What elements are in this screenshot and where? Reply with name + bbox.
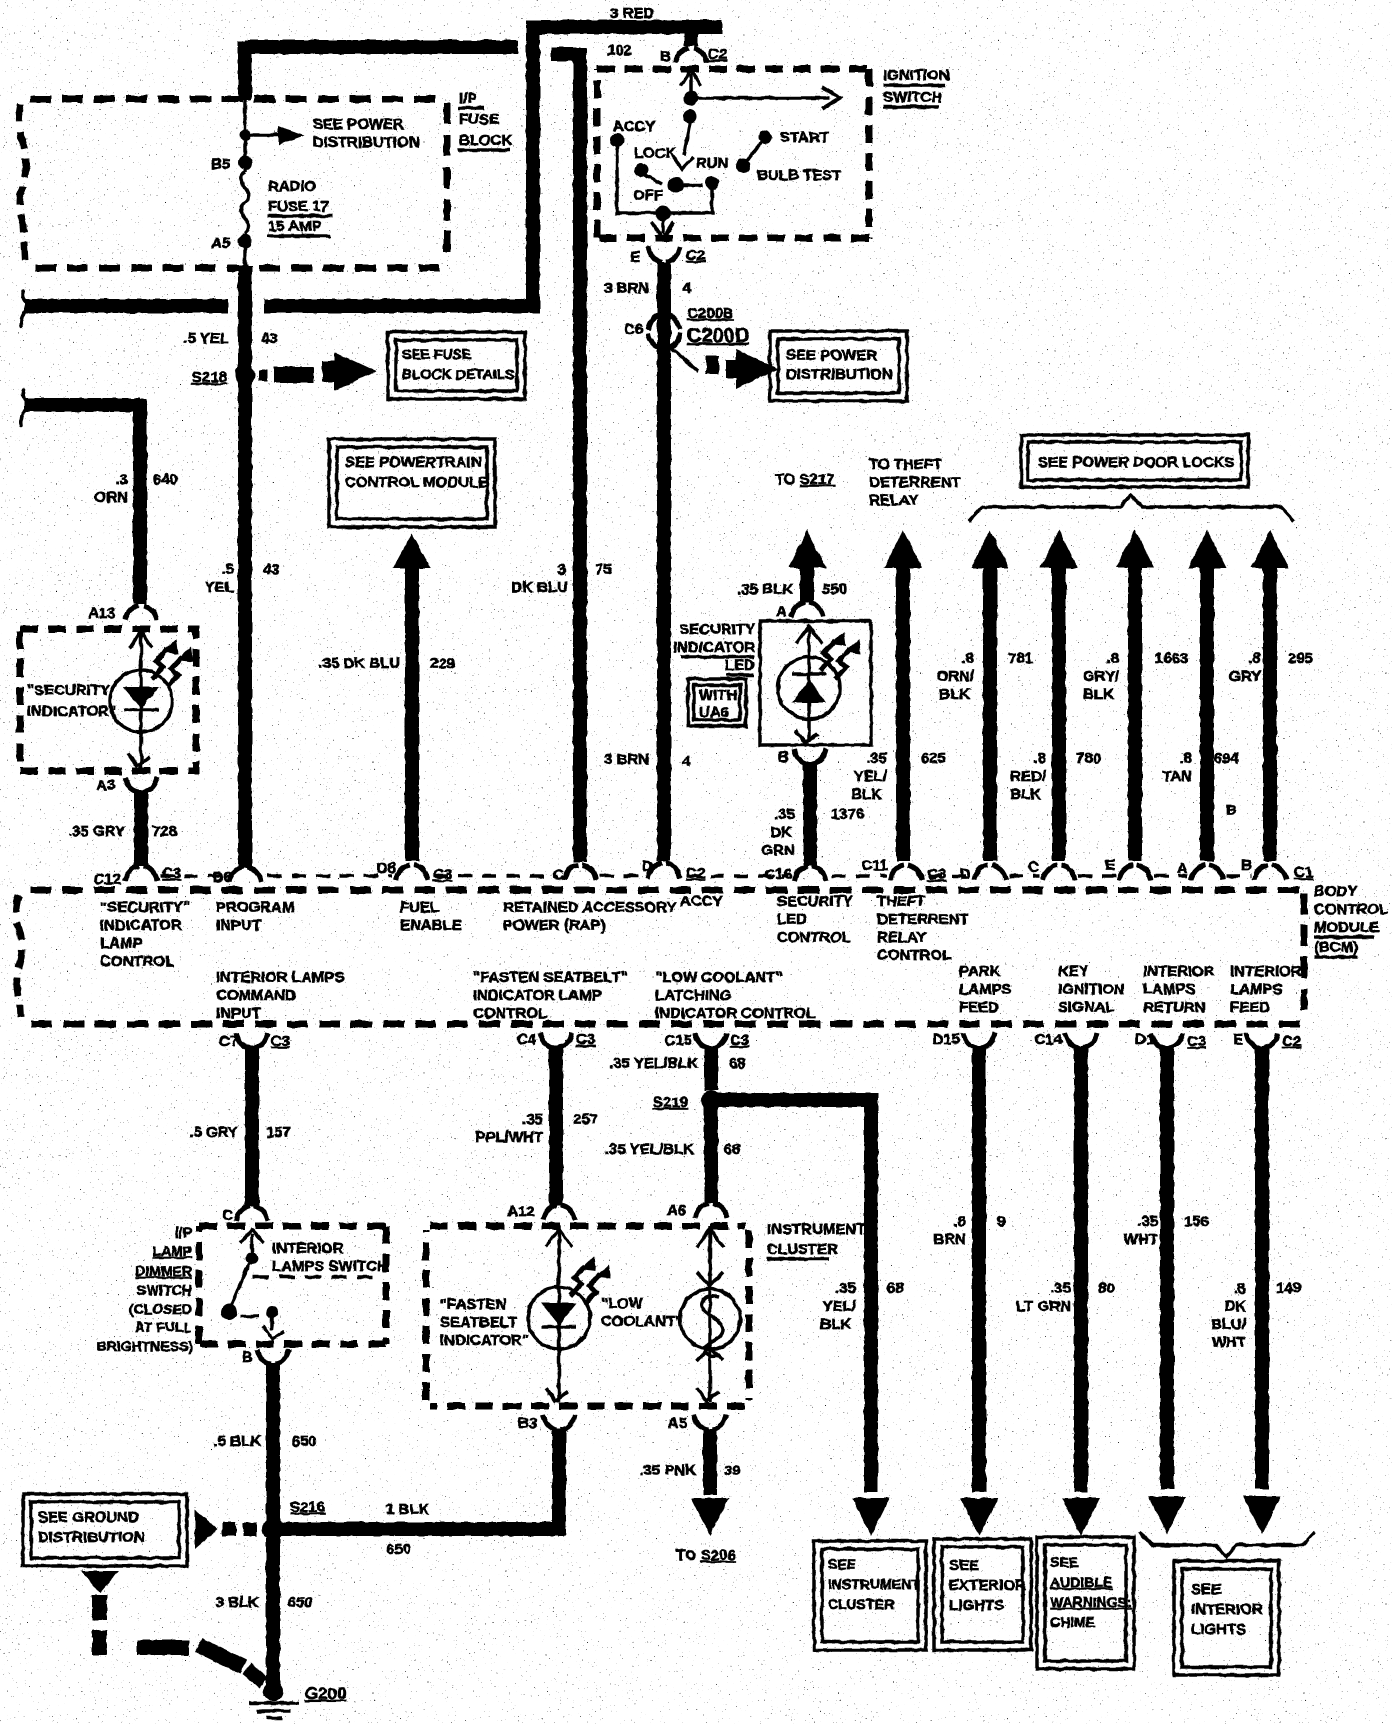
wire .35 GRY 728	[134, 790, 148, 866]
brace under interior lamps arrows	[1140, 1532, 1315, 1557]
switch wiper arm with arrowhead	[684, 122, 690, 155]
ground G200	[263, 1681, 283, 1701]
brace over power door lock arrows	[969, 495, 1294, 521]
connector A at top of security LED module	[791, 602, 823, 617]
arrow see power distribution	[278, 126, 304, 145]
wire 3 BRN 4 from ignition to BCM D	[657, 262, 671, 861]
I/P fuse block dashed box	[30, 96, 440, 103]
connector A6 at instrument cluster	[695, 1203, 727, 1218]
arrow down interior lamps return	[1148, 1496, 1186, 1534]
arrow from ground distribution to S216	[195, 1510, 218, 1549]
thin connector link dashes along BCM top	[160, 874, 225, 878]
connector E C2 below BCM	[1246, 1033, 1278, 1048]
connector A at BCM	[1191, 865, 1223, 880]
LED fasten seatbelt indicator	[557, 1226, 561, 1402]
security indicator LED module box	[760, 621, 871, 745]
wire 3 RED top horizontal	[526, 20, 722, 34]
splice S216	[262, 1518, 284, 1540]
wire .5 BLK 650	[266, 1363, 280, 1523]
connector C14 below BCM	[1065, 1033, 1097, 1048]
box SEE POWER DOOR LOCKS	[1021, 435, 1248, 487]
instrument cluster dashed box	[430, 1223, 745, 1230]
wire 3 RED left vertical leg circuit 102	[526, 21, 540, 306]
bulb LOW COOLANT indicator	[708, 1226, 712, 1402]
connector D15 below BCM	[963, 1033, 995, 1048]
I/P lamp dimmer switch dashed box	[199, 1223, 386, 1230]
wire radio fuse feed horizontal	[245, 40, 518, 54]
connector C at dimmer switch	[236, 1206, 268, 1221]
box SEE AUDIBLE WARNINGS: CHIME	[1037, 1537, 1134, 1669]
connector D8 C3 at BCM	[396, 865, 428, 880]
LED security indicator (left)	[139, 629, 143, 768]
box SEE GROUND DISTRIBUTION	[23, 1494, 187, 1566]
ignition switch dashed box	[597, 66, 869, 73]
box SEE POWER DISTRIBUTION (right)	[770, 331, 907, 401]
wire 3 RED horizontal to off-page left	[264, 299, 540, 313]
wire .35 PNK 39 with arrow TO S206	[703, 1429, 717, 1495]
wire from B3 down to S216 run	[552, 1429, 566, 1535]
connector B3 below instrument cluster	[543, 1415, 575, 1430]
connector C12 C3 at BCM	[125, 866, 157, 881]
wire .35 WHT 156 interior lamps return	[1160, 1046, 1174, 1489]
connector E C2 below ignition switch	[648, 247, 680, 262]
contact OFF	[668, 177, 684, 193]
wire .8 BRN 9 park lamps	[972, 1046, 986, 1492]
ground distribution dashed branch	[81, 1571, 119, 1593]
wire stub to ignition switch B	[684, 21, 698, 46]
dimmer switch internals	[240, 1230, 264, 1243]
node output junction	[655, 205, 671, 221]
connector A12 at instrument cluster	[543, 1205, 575, 1220]
contact LOCK	[634, 163, 648, 177]
arrow down to SEE AUDIBLE WARNINGS	[1062, 1498, 1100, 1536]
splice S219	[701, 1090, 721, 1110]
box SEE INSTRUMENT CLUSTER	[814, 1541, 926, 1650]
wire .35 PPL/WHT 257	[549, 1046, 563, 1206]
wire .35 DK GRN 1376	[803, 762, 817, 866]
connector D1 C3 below BCM	[1151, 1033, 1183, 1048]
wire thin through fuse	[243, 100, 247, 172]
arrow TO S217 with wire .35 BLK 550	[788, 530, 826, 568]
arrow down to SEE INSTRUMENT CLUSTER	[852, 1498, 890, 1536]
interior lamps switch inner dashed line	[253, 1275, 382, 1279]
security indicator dashed box (left)	[20, 629, 196, 771]
arrow down interior lamps feed	[1243, 1496, 1281, 1534]
connector C7 C3 below BCM	[236, 1033, 268, 1048]
connector B below security LED module	[794, 749, 826, 764]
box WITH UA6	[688, 679, 746, 726]
wire branch from S219 to instrument cluster arrow	[717, 1093, 871, 1107]
connector D6 at BCM (radio wire)	[229, 867, 261, 882]
wire 1 BLK 650 horizontal to B3 leg	[273, 1522, 566, 1536]
arrow see fuse block details	[322, 352, 376, 391]
node B5	[238, 156, 252, 170]
connector A13 into security indicator	[125, 606, 157, 620]
wire .35 YEL/BLK 68 lower	[704, 1093, 718, 1203]
output arrow down	[661, 217, 665, 234]
connector D C2 at BCM (3 BRN)	[648, 863, 680, 878]
node ignition feed	[684, 91, 698, 105]
connector C4 C3 below BCM	[540, 1033, 572, 1048]
wire .8 DK BLU/WHT 149 interior lamps feed	[1255, 1046, 1269, 1489]
ignition switch internal: input arrow up	[681, 70, 701, 86]
bent arrow to see power distribution	[672, 349, 698, 371]
connector C6 C200B C200D inline	[648, 314, 680, 330]
contact BULB TEST and START	[736, 159, 750, 173]
wire .35 LT GRN 80 key ignition	[1074, 1046, 1088, 1492]
wire .3 ORN 640	[24, 398, 140, 412]
off-page chevron 3 RED	[21, 291, 33, 326]
off-page chevron .3 ORN	[21, 390, 33, 425]
arrow power door locks 5, wire .8 GRY 295	[1251, 530, 1289, 568]
LED light arrows	[152, 639, 178, 679]
box SEE INTERIOR LIGHTS	[1174, 1561, 1279, 1675]
connector C at BCM (3 DK BLU)	[564, 865, 596, 880]
wire 3 BLK 650 down to G200	[266, 1529, 280, 1688]
box SEE POWERTRAIN CONTROL MODULE	[329, 439, 495, 527]
connector B C2 ignition switch	[675, 48, 707, 63]
node branch to power distribution	[239, 129, 251, 141]
connector C at BCM	[1043, 865, 1075, 880]
connector C16 at BCM	[794, 866, 826, 881]
wire .5 GRY 157	[245, 1046, 259, 1207]
LED security (module)	[807, 624, 811, 742]
arrow power door locks 1, wire .8 ORN/BLK 781	[971, 530, 1009, 568]
wire .5 YEL 43 down from fuse block to S218	[238, 266, 252, 868]
LED light arrows	[820, 631, 846, 671]
arrow power door locks 4, wire .8 TAN 694	[1188, 530, 1226, 568]
connector A5 below instrument cluster	[694, 1415, 726, 1430]
contact ACCY	[610, 133, 624, 147]
connector B at BCM	[1254, 865, 1286, 880]
wire to right arrow (feed)	[691, 96, 830, 100]
box SEE FUSE BLOCK DETAILS	[388, 332, 525, 399]
node A5	[238, 234, 252, 248]
connector D at BCM	[974, 865, 1006, 880]
wire radio fuse vertical upper thick	[238, 41, 252, 100]
arrow down to SEE EXTERIOR LIGHTS	[960, 1498, 998, 1536]
box SEE EXTERIOR LIGHTS	[934, 1539, 1031, 1650]
wire 3 DK BLU vertical down to BCM C	[573, 48, 587, 862]
connector A3	[125, 777, 157, 792]
arrow TO THEFT DETERRENT RELAY, wire 625	[884, 530, 922, 568]
wire .35 YEL/BLK 68 upper	[704, 1046, 718, 1090]
splice S218	[235, 365, 255, 385]
arrow power door locks 2, wire .8 RED/BLK 780	[1040, 530, 1078, 568]
arrow up to powertrain control module, wire .35 DK BLU 229	[393, 533, 431, 568]
node wiper pivot	[683, 109, 697, 123]
fuse RADIO FUSE 17 15 AMP	[241, 172, 249, 234]
contact RUN	[705, 176, 719, 190]
connector C11 C3 at BCM	[890, 865, 922, 880]
arrow power door locks 3, wire .8 GRY/BLK 1663	[1116, 530, 1154, 568]
connector C15 C3 below BCM	[695, 1033, 727, 1048]
connector E at BCM	[1119, 865, 1151, 880]
BCM body control module dashed box	[30, 887, 1300, 894]
wire ACCY to output	[617, 145, 712, 213]
connector B below dimmer switch	[257, 1349, 289, 1364]
